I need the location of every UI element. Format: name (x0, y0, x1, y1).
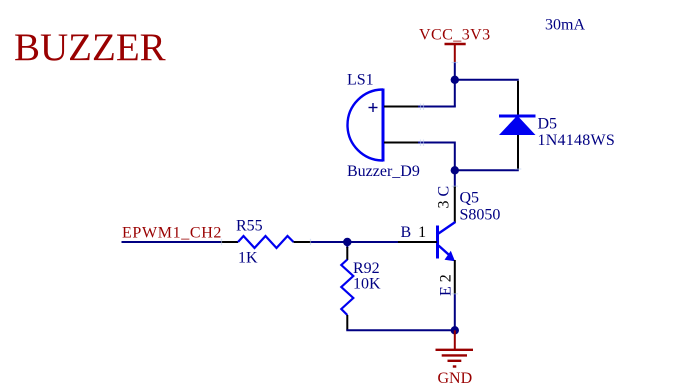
svg-text:E2: E2 (438, 274, 455, 296)
resistor R55 pin 2 (294, 241, 312, 243)
svg-text:Q5: Q5 (460, 190, 480, 207)
resistor R92 pin 1 (346, 247, 348, 260)
node D junction dot (451, 326, 459, 334)
svg-text:3C: 3C (436, 186, 453, 209)
transistor Q5 collector pin 3 (454, 186, 456, 223)
transistor Q5 symbol (438, 222, 456, 261)
svg-text:1K: 1K (238, 249, 258, 266)
wire EPWM1_CH2 to R55 (122, 241, 222, 243)
svg-text:D5: D5 (538, 116, 558, 133)
wire emitter to node D (454, 294, 456, 330)
resistor R92 pin 2 (346, 315, 348, 330)
wire VCC stub down to node A (454, 62, 456, 107)
svg-text:EPWM1_CH2: EPWM1_CH2 (122, 225, 222, 242)
diode D5 pin top (517, 81, 519, 116)
transistor Q5 base pin 1 (398, 241, 437, 243)
node A junction dot (451, 76, 459, 84)
buzzer pin 2 (bottom) (384, 142, 418, 144)
buzzer LS1 symbol (348, 89, 384, 162)
resistor R55 symbol (238, 236, 294, 248)
wire node B down to collector pin (454, 170, 456, 188)
diode D5 symbol (499, 116, 536, 136)
wire node C down to R92 (346, 242, 348, 248)
ground symbol (436, 350, 474, 367)
svg-text:10K: 10K (353, 275, 381, 292)
svg-text:S8050: S8050 (460, 207, 501, 224)
diode D5 pin bottom (517, 134, 519, 169)
resistor R92 symbol (341, 260, 353, 316)
svg-text:Buzzer_D9: Buzzer_D9 (347, 163, 420, 180)
node B junction dot (451, 166, 459, 174)
buzzer plus sign (369, 103, 378, 112)
svg-text:R92: R92 (353, 260, 380, 277)
power port GND stub (454, 330, 456, 350)
wire buzzer pin2 to node B (418, 143, 455, 171)
wire buzzer pin1 to main vertical (418, 106, 456, 108)
pin hotspot markers (222, 63, 522, 294)
wire bottom rail R92 to node D (346, 329, 455, 331)
svg-text:BUZZER: BUZZER (14, 26, 166, 69)
svg-text:LS1: LS1 (347, 72, 374, 89)
wire node B to diode bottom corner (455, 169, 519, 171)
resistor R55 pin 1 (221, 241, 239, 243)
svg-text:30mA: 30mA (545, 17, 585, 34)
buzzer pin 1 (top) (384, 106, 418, 108)
wire node A to diode top corner (455, 79, 519, 81)
svg-text:VCC_3V3: VCC_3V3 (419, 27, 491, 44)
transistor Q5 emitter pin 2 (454, 260, 456, 294)
svg-text:1N4148WS: 1N4148WS (538, 132, 616, 149)
svg-text:B1: B1 (401, 224, 427, 241)
node C junction dot (343, 238, 351, 246)
power port VCC_3V3 bar symbol (445, 44, 466, 62)
svg-text:R55: R55 (236, 217, 263, 234)
svg-text:GND: GND (438, 370, 473, 387)
wire R55 to node C (311, 241, 398, 243)
